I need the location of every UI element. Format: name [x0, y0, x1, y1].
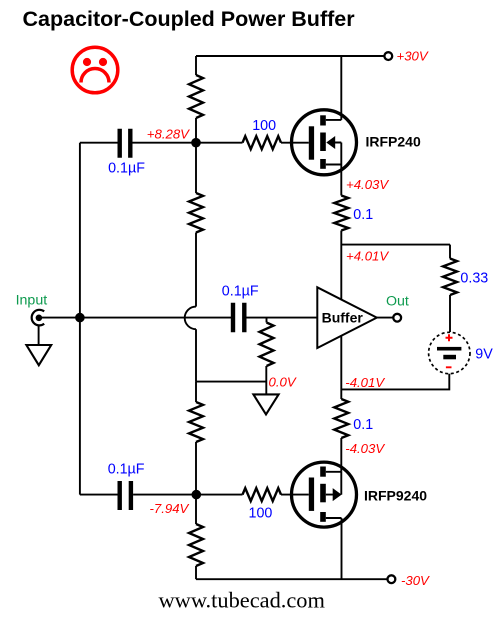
svg-text:+8.28V: +8.28V: [147, 127, 190, 142]
svg-text:0.1µF: 0.1µF: [222, 283, 259, 299]
svg-text:+30V: +30V: [397, 48, 429, 63]
wire input to C2: [39, 317, 231, 319]
svg-text:0.1µF: 0.1µF: [108, 461, 145, 477]
svg-text:+4.03V: +4.03V: [346, 177, 389, 192]
resistor R6 0.1: [334, 196, 348, 231]
resistor R4: [189, 524, 203, 566]
wire R4 to bottom rail: [195, 566, 197, 579]
resistor 100 top gate: [196, 142, 243, 144]
wire R6 down main rail (under buffer): [340, 231, 342, 400]
wire battery to -4.01 node: [341, 374, 449, 390]
capacitor C1 0.1uF top: [80, 129, 192, 177]
terminal Out: [393, 314, 401, 322]
svg-text:+4.01V: +4.01V: [346, 249, 389, 264]
resistor R5 buffer input: [266, 318, 268, 323]
svg-text:Capacitor-Coupled Power Buffer: Capacitor-Coupled Power Buffer: [23, 7, 356, 31]
wire bottom rail: [196, 578, 388, 580]
resistor 100 bottom gate: [196, 494, 243, 496]
wire R5 to ground: [265, 366, 267, 394]
wire Q2 drain to bottom rail: [341, 518, 343, 579]
svg-text:-7.94V: -7.94V: [150, 501, 190, 516]
ground middle: [253, 394, 278, 414]
ground input: [26, 345, 51, 365]
battery B1 9V: [429, 332, 494, 373]
node -7.94V junction dot: [192, 490, 202, 500]
svg-text:0.1: 0.1: [353, 417, 373, 433]
wire hop to 0V tap: [195, 329, 197, 381]
svg-text:Buffer: Buffer: [322, 309, 364, 325]
wire rail to R1: [195, 56, 197, 75]
transistor Q1 IRFP240: [292, 110, 421, 175]
svg-text:0.0V: 0.0V: [269, 375, 297, 390]
node +8.28V junction dot: [191, 138, 201, 148]
svg-text:0.1µF: 0.1µF: [108, 160, 145, 176]
wire hop over input line: [185, 307, 196, 330]
resistor R2: [189, 193, 203, 232]
input jack: [32, 310, 45, 326]
wire R3 to node: [195, 442, 197, 495]
svg-text:Input: Input: [16, 292, 48, 308]
transistor Q2 IRFP9240: [292, 462, 428, 527]
wire node to R4: [195, 495, 197, 524]
svg-text:-30V: -30V: [401, 573, 430, 588]
wire R1 to node: [195, 118, 197, 143]
svg-text:100: 100: [252, 118, 276, 134]
wire 0V tap horizontal: [196, 381, 267, 383]
wire Q1 source to R6: [340, 165, 342, 196]
svg-text:100: 100: [249, 506, 273, 522]
node input junction dot: [75, 313, 85, 323]
wire left vertical C1 to C3: [79, 143, 81, 495]
wire R8 to Q2 source: [340, 438, 342, 472]
wire +4.01 node to 0.33 branch: [341, 244, 450, 246]
buffer U1 triangle: [317, 287, 377, 348]
svg-text:IRFP9240: IRFP9240: [364, 487, 427, 503]
wire rail to Q1 drain: [340, 56, 342, 120]
svg-text:www.tubecad.com: www.tubecad.com: [159, 588, 326, 613]
svg-text:-4.03V: -4.03V: [345, 441, 385, 456]
wire R2 to hop: [195, 233, 197, 307]
svg-text:IRFP240: IRFP240: [366, 133, 421, 149]
svg-text:0.33: 0.33: [460, 270, 488, 286]
wire jack to ground: [38, 326, 40, 346]
resistor R3: [189, 402, 203, 442]
svg-text:0.1: 0.1: [353, 207, 373, 223]
terminal -30V: [388, 575, 396, 583]
wire buffer out: [377, 317, 393, 319]
wire R7 to battery: [449, 295, 451, 332]
svg-text:Out: Out: [386, 294, 409, 310]
wire tap to R3: [195, 382, 197, 402]
terminal +30V: [384, 52, 392, 60]
capacitor C3 0.1uF bottom: [80, 461, 192, 510]
wire top rail: [196, 55, 385, 57]
capacitor C2 0.1uF middle: [222, 283, 317, 332]
resistor R1: [189, 75, 203, 118]
resistor R7 0.33: [443, 259, 457, 295]
wire node to R2: [195, 143, 197, 193]
svg-text:9V: 9V: [475, 346, 493, 362]
resistor R8 0.1: [334, 399, 348, 438]
svg-text:-4.01V: -4.01V: [345, 375, 385, 390]
sad face icon: [72, 47, 118, 93]
